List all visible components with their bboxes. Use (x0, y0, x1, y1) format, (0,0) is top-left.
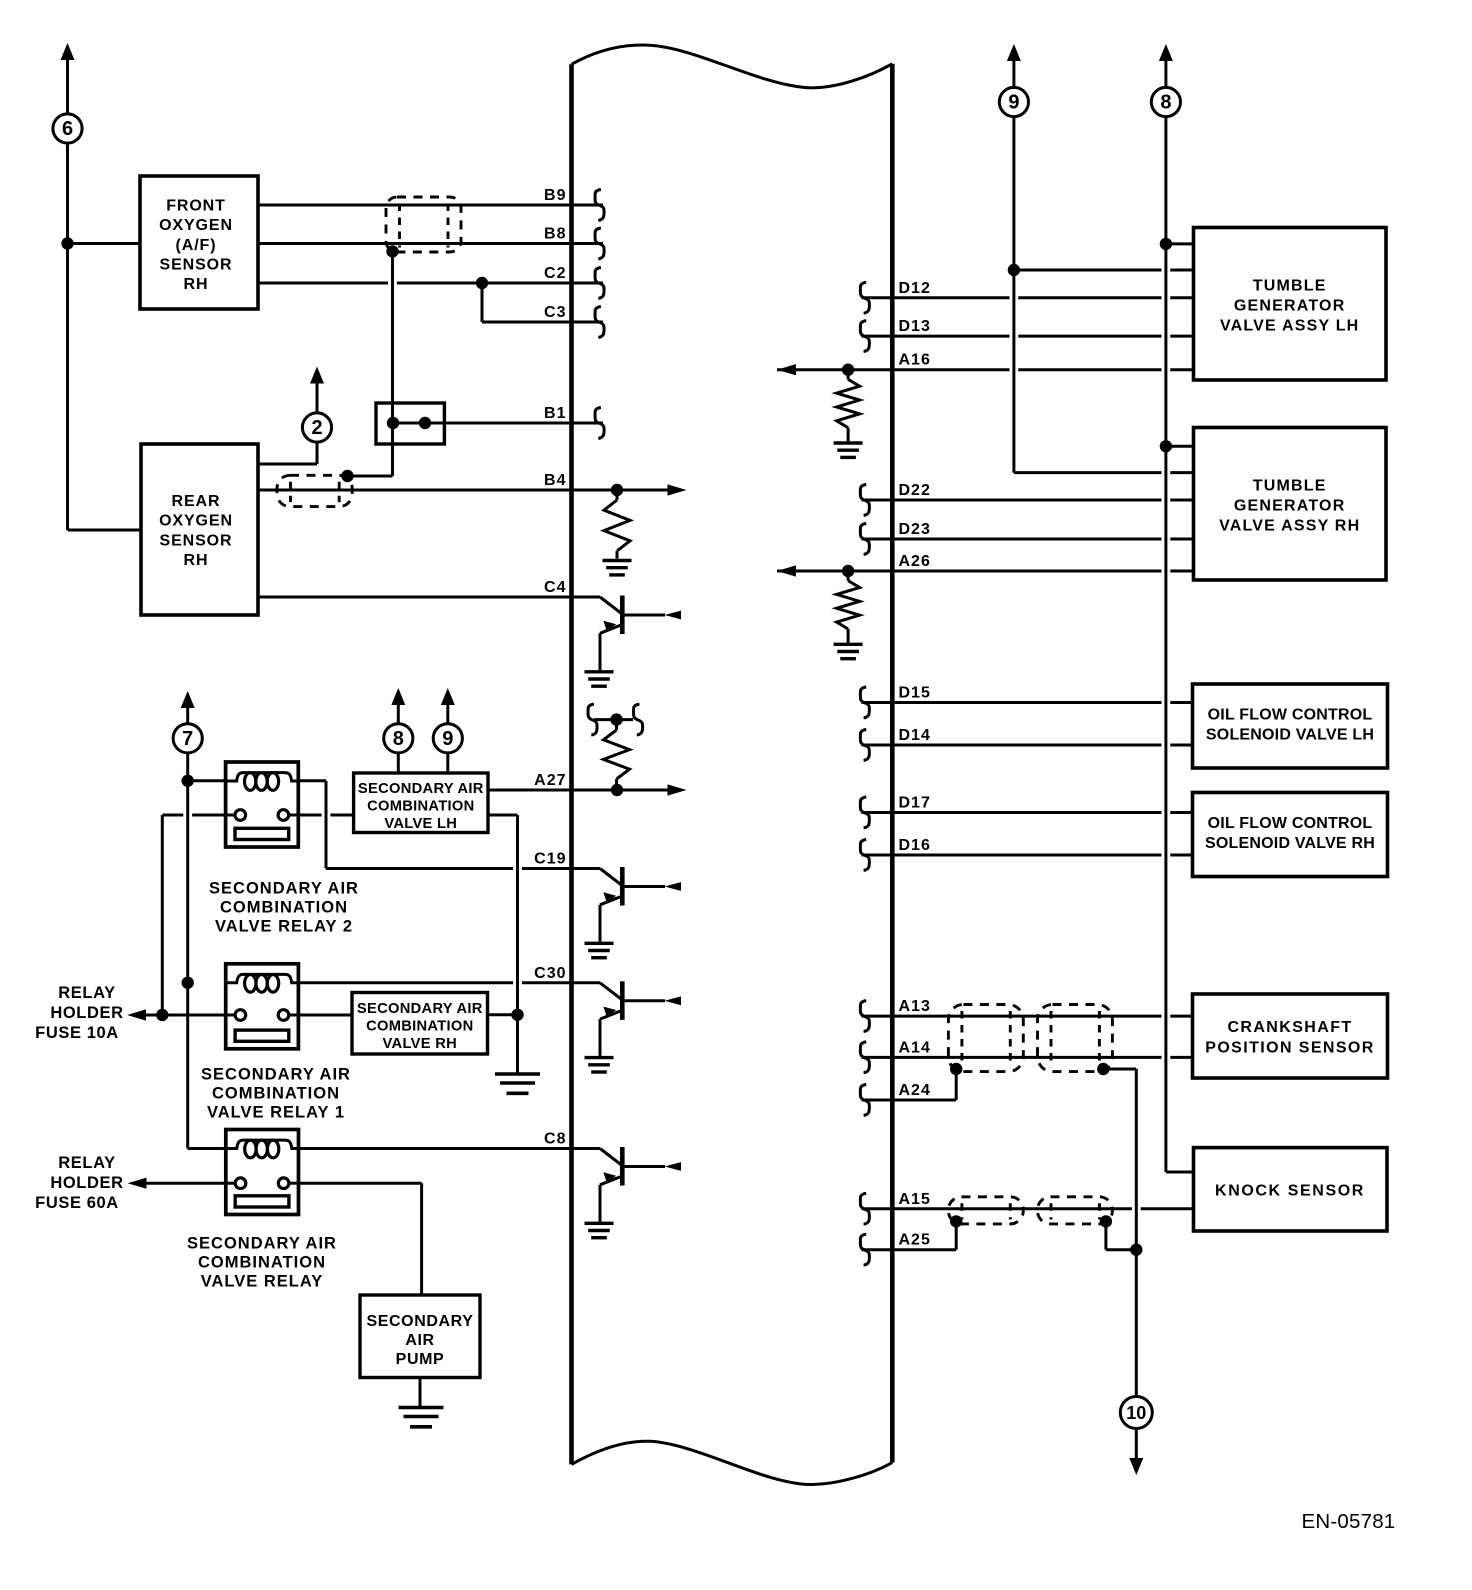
circle 8 left (384, 724, 413, 753)
stub break left (588, 704, 597, 735)
pin label D22 (899, 482, 931, 499)
pin break A14 (860, 1042, 869, 1073)
tumble LH label (1220, 278, 1359, 335)
pin label A26 (899, 553, 931, 570)
junction dot C2/C3 (476, 277, 488, 289)
svg-text:10: 10 (1126, 1403, 1146, 1423)
resistor A27 pull-up (604, 720, 630, 790)
junction dot bus9/tumble LH (1008, 264, 1020, 276)
wire bus 7 vertical (186, 753, 189, 1149)
wire bus8 to tumble LH (1166, 242, 1194, 245)
svg-text:D22: D22 (899, 482, 931, 499)
wire sensor ground bus to 10 (1135, 1250, 1138, 1397)
pin label C19 (534, 851, 566, 868)
wire valve LH to ground bus (488, 815, 518, 1073)
svg-text:SECONDARY AIR: SECONDARY AIR (209, 880, 359, 898)
valve LH label (358, 781, 484, 832)
shield capsule B9/B8 (386, 197, 461, 252)
pin label D14 (899, 727, 931, 744)
shield capsule B4 (277, 475, 352, 506)
ground A16 resistor (834, 443, 863, 457)
wire A13 (862, 1015, 1193, 1018)
pin break C3 (595, 307, 604, 338)
pin break C2 (595, 268, 604, 299)
secondary air combination valve LH box (354, 773, 488, 833)
circle 2 (302, 413, 331, 442)
shield dot crank right (1097, 1063, 1109, 1075)
pin break D13 (860, 321, 869, 352)
wire A25 (862, 1221, 957, 1249)
svg-text:D12: D12 (899, 280, 931, 297)
arrowhead fuse 60A (128, 1178, 147, 1189)
svg-text:VALVE RELAY 2: VALVE RELAY 2 (215, 918, 353, 936)
pin label D15 (899, 685, 931, 702)
twisted pair capsule A13/A14 right (1038, 1005, 1113, 1072)
svg-text:COMBINATION: COMBINATION (212, 1084, 340, 1102)
junction dot bus7/relay2 (182, 775, 194, 787)
svg-text:D23: D23 (899, 521, 931, 538)
knock sensor label (1215, 1183, 1365, 1200)
svg-text:GENERATOR: GENERATOR (1234, 498, 1346, 515)
pin label A16 (899, 352, 931, 369)
junction dot fuse10A (156, 1009, 168, 1021)
wire A16 (777, 368, 1194, 371)
wire A27 (488, 789, 668, 792)
wire front sensor ground lead (68, 242, 141, 245)
svg-text:VALVE RELAY 1: VALVE RELAY 1 (207, 1103, 345, 1121)
pin label A25 (899, 1232, 931, 1249)
resistor A26 pull-down (837, 571, 860, 643)
ECM left wall (569, 64, 574, 1464)
relay R3 secondary air combination valve relay (226, 1130, 299, 1215)
wire C3 branch (482, 283, 603, 322)
knock sensor box (1194, 1148, 1388, 1231)
joint connector dots (387, 417, 431, 429)
svg-text:A27: A27 (534, 772, 566, 789)
svg-text:RH: RH (184, 552, 209, 569)
svg-text:A14: A14 (899, 1039, 931, 1056)
svg-text:OIL FLOW CONTROL: OIL FLOW CONTROL (1208, 815, 1373, 832)
wire C30 (298, 981, 600, 984)
wire relay3 contact to pump (299, 1183, 422, 1295)
svg-text:6: 6 (62, 118, 73, 140)
pin break D22 (860, 485, 869, 516)
wire circle9 to valve LH (446, 753, 449, 773)
crankshaft position sensor box (1193, 994, 1388, 1078)
junction dot A26 (842, 565, 854, 577)
relay3 label (187, 1235, 337, 1291)
arrowhead A16 (777, 364, 796, 375)
svg-text:B9: B9 (544, 187, 566, 204)
ground B4 resistor (603, 561, 632, 575)
tumble generator valve assy LH box (1194, 228, 1387, 381)
wire D14 (862, 744, 1193, 747)
pin label D12 (899, 280, 931, 297)
figure number EN-05781 (1302, 1510, 1396, 1533)
wire circle2 to rear sensor (258, 442, 317, 464)
circle 9 left (433, 724, 462, 753)
wire relay2 contact left (162, 815, 225, 1015)
circle 7 (173, 724, 202, 753)
internal supply stub A27 (594, 718, 633, 721)
pin break D15 (860, 687, 869, 718)
wire B1 (425, 422, 603, 425)
svg-text:SOLENOID VALVE LH: SOLENOID VALVE LH (1206, 726, 1374, 743)
relay holder fuse 10A label (35, 984, 123, 1042)
wire C2 (258, 282, 603, 285)
wire fuse60A to relay3 (144, 1182, 226, 1185)
svg-text:TUMBLE: TUMBLE (1253, 278, 1327, 295)
wire bus7 to relay3 coil (188, 1147, 226, 1150)
wire bus 9 vertical (1012, 116, 1015, 472)
svg-text:FRONT: FRONT (166, 197, 226, 214)
pin break D14 (860, 730, 869, 761)
svg-text:C19: C19 (534, 851, 566, 868)
pin label C30 (534, 965, 566, 982)
arrow 8 left (391, 688, 405, 724)
twisted pair capsule A15/A25 left (948, 1197, 1023, 1224)
pin label C8 (544, 1131, 566, 1148)
wire bus 6 vertical (68, 143, 142, 530)
shield drain dot B9/B8 (386, 245, 398, 257)
arrow 8 right (1159, 44, 1173, 88)
arrowhead A26 (777, 565, 796, 576)
power feed arrow 6 (61, 43, 75, 114)
wire bus 8 vertical (1164, 116, 1167, 1172)
svg-text:COMBINATION: COMBINATION (366, 1019, 473, 1035)
svg-text:PUMP: PUMP (396, 1351, 445, 1368)
resistor B4 pull-down (604, 490, 630, 559)
svg-text:C30: C30 (534, 965, 566, 982)
rear oxygen sensor label (159, 493, 233, 569)
secondary air combination valve RH box (352, 993, 488, 1055)
front oxygen sensor label (159, 197, 233, 293)
arrow 10 (1129, 1429, 1143, 1475)
oil flow control solenoid valve RH box (1193, 793, 1388, 877)
svg-text:C3: C3 (544, 304, 566, 321)
wire bus8 to knock sensor (1166, 1171, 1194, 1174)
wire B8 (258, 242, 603, 245)
pin break D17 (860, 797, 869, 828)
resistor A16 pull-down (837, 370, 860, 442)
svg-text:B8: B8 (544, 226, 566, 243)
svg-text:B4: B4 (544, 472, 566, 489)
oil flow control solenoid valve LH box (1193, 684, 1388, 768)
svg-text:VALVE ASSY RH: VALVE ASSY RH (1219, 518, 1360, 535)
relay2 label (209, 880, 359, 936)
svg-text:REAR: REAR (172, 493, 221, 510)
transistor C19 driver (585, 867, 682, 958)
pin label D17 (899, 795, 931, 812)
svg-text:A15: A15 (899, 1191, 931, 1208)
svg-text:AIR: AIR (405, 1332, 434, 1349)
transistor C8 driver (585, 1147, 682, 1238)
wire A14 (862, 1056, 1193, 1059)
arrow 7 (181, 691, 195, 724)
wire pump to ground (419, 1378, 422, 1407)
transistor C4 driver (585, 596, 682, 687)
transistor C30 driver (585, 981, 682, 1072)
svg-text:9: 9 (1008, 92, 1019, 114)
tumble RH label (1219, 478, 1360, 535)
ground pump (399, 1408, 444, 1427)
ground valves (495, 1074, 540, 1093)
pin label B1 (544, 405, 566, 422)
wire A15 (862, 1207, 1194, 1210)
svg-text:D16: D16 (899, 837, 931, 854)
junction dot valve RH ground (511, 1009, 523, 1021)
svg-text:EN-05781: EN-05781 (1302, 1510, 1396, 1533)
svg-text:FUSE 60A: FUSE 60A (35, 1194, 119, 1212)
wire D22 (862, 499, 1194, 502)
arrow 9 right (1007, 44, 1021, 88)
svg-text:SECONDARY AIR: SECONDARY AIR (201, 1065, 351, 1083)
wire C19 (326, 867, 600, 870)
svg-text:SOLENOID VALVE RH: SOLENOID VALVE RH (1205, 835, 1375, 852)
wire D17 (862, 811, 1193, 814)
wire D12 (862, 296, 1194, 299)
wire D13 (862, 335, 1194, 338)
wire bus9 to tumble LH (1014, 269, 1194, 272)
pin break D12 (860, 282, 869, 313)
wire relay2 coil feed (188, 779, 226, 782)
pin label A13 (899, 998, 931, 1015)
arrowhead B4 (668, 484, 687, 495)
svg-text:HOLDER: HOLDER (50, 1174, 123, 1192)
junction dot A27 (611, 784, 623, 796)
shield dot A25 (950, 1215, 962, 1227)
junction dot bus8/tumble RH (1160, 440, 1172, 452)
junction dot bus8/tumble LH (1160, 238, 1172, 250)
svg-text:B1: B1 (544, 405, 566, 422)
pin break A24 (860, 1085, 869, 1116)
wire B4 (258, 489, 668, 492)
valve RH label (357, 1001, 483, 1052)
wire B9 (258, 204, 603, 207)
svg-text:OIL FLOW CONTROL: OIL FLOW CONTROL (1208, 706, 1373, 723)
ECM right wall (890, 64, 895, 1463)
twisted pair capsule A15/A25 right (1038, 1197, 1113, 1224)
twisted pair capsule A13/A14 left (948, 1005, 1023, 1072)
stub break right (634, 704, 643, 735)
pin label C3 (544, 304, 566, 321)
arrow 2 (310, 367, 324, 413)
svg-text:COMBINATION: COMBINATION (220, 899, 348, 917)
wire fuse10A to relay1 (144, 1014, 226, 1017)
arrowhead A27 (668, 784, 687, 795)
junction dot bus6/front-sensor (61, 237, 73, 249)
svg-text:POSITION SENSOR: POSITION SENSOR (1205, 1039, 1374, 1056)
wire circle8 to valve LH (397, 753, 400, 773)
wire A24 (862, 1069, 957, 1100)
wire D23 (862, 538, 1194, 541)
pin break A25 (860, 1234, 869, 1265)
svg-text:COMBINATION: COMBINATION (198, 1254, 326, 1272)
svg-text:COMBINATION: COMBINATION (367, 799, 474, 815)
svg-text:A26: A26 (899, 553, 931, 570)
wire D15 (862, 701, 1193, 704)
svg-text:CRANKSHAFT: CRANKSHAFT (1227, 1019, 1352, 1036)
junction dot A27 pull-up (610, 713, 622, 725)
crankshaft label (1205, 1019, 1374, 1056)
svg-text:SENSOR: SENSOR (160, 257, 233, 274)
wire knock shield drain (1106, 1221, 1136, 1249)
svg-text:2: 2 (311, 417, 322, 439)
pin label A15 (899, 1191, 931, 1208)
svg-text:TUMBLE: TUMBLE (1253, 478, 1327, 495)
pin break B8 (595, 228, 604, 259)
svg-text:(A/F): (A/F) (176, 237, 217, 254)
pin break D23 (860, 524, 869, 555)
front oxygen sensor box (140, 176, 258, 309)
svg-text:SECONDARY AIR: SECONDARY AIR (357, 1001, 483, 1017)
svg-text:A16: A16 (899, 352, 931, 369)
svg-text:9: 9 (442, 728, 453, 750)
pump label (366, 1313, 473, 1368)
relay R2 secondary air combination valve relay 2 (226, 762, 299, 847)
ground A26 resistor (834, 644, 863, 658)
svg-text:D13: D13 (899, 318, 931, 335)
svg-text:7: 7 (182, 728, 193, 750)
pin break B1 (595, 408, 604, 439)
circle 6 (53, 114, 82, 143)
circle 8 right (1151, 87, 1180, 116)
wire A26 (777, 570, 1194, 573)
svg-text:GENERATOR: GENERATOR (1234, 298, 1346, 315)
circle 10 (1120, 1397, 1152, 1429)
pin break A13 (860, 1001, 869, 1032)
pin label A27 (534, 772, 566, 789)
svg-text:8: 8 (393, 728, 404, 750)
wire relay2 coil to C19 (298, 781, 326, 869)
wire crank shield to sensor ground bus (1103, 1069, 1136, 1250)
oil flow RH label (1205, 815, 1375, 852)
pin label B4 (544, 472, 566, 489)
svg-text:VALVE RH: VALVE RH (383, 1036, 457, 1052)
tumble generator valve assy RH box (1194, 428, 1387, 581)
rear oxygen sensor box (141, 444, 258, 615)
svg-text:VALVE RELAY: VALVE RELAY (201, 1273, 324, 1291)
circle 9 right (999, 87, 1028, 116)
pin break D16 (860, 840, 869, 871)
wire bus8 to tumble RH (1166, 445, 1194, 448)
svg-text:8: 8 (1160, 92, 1171, 114)
svg-text:RH: RH (184, 276, 209, 293)
svg-text:A25: A25 (899, 1232, 931, 1249)
shield dot A24 (950, 1063, 962, 1075)
wire D16 (862, 854, 1193, 857)
pin label C2 (544, 265, 566, 282)
svg-text:VALVE ASSY LH: VALVE ASSY LH (1220, 318, 1359, 335)
svg-text:SECONDARY: SECONDARY (366, 1313, 473, 1330)
pin label A24 (899, 1082, 931, 1099)
pin label C4 (544, 579, 566, 596)
arrow 9 left (441, 688, 455, 724)
junction dot B4 (611, 484, 623, 496)
wire C4 (258, 596, 600, 599)
svg-text:OXYGEN: OXYGEN (159, 217, 233, 234)
svg-text:SECONDARY AIR: SECONDARY AIR (187, 1235, 337, 1253)
svg-text:A13: A13 (899, 998, 931, 1015)
svg-text:SECONDARY AIR: SECONDARY AIR (358, 781, 484, 797)
pin label D13 (899, 318, 931, 335)
svg-text:VALVE LH: VALVE LH (384, 816, 457, 832)
svg-text:FUSE 10A: FUSE 10A (35, 1024, 119, 1042)
svg-text:SENSOR: SENSOR (160, 532, 233, 549)
wire relay2 contact right (298, 814, 353, 817)
pin break B9 (595, 190, 604, 221)
ECM torn top edge (572, 45, 893, 88)
joint connector box B1 (376, 403, 444, 444)
oil flow LH label (1206, 706, 1374, 743)
pin label B8 (544, 226, 566, 243)
pin label D16 (899, 837, 931, 854)
svg-text:KNOCK SENSOR: KNOCK SENSOR (1215, 1183, 1365, 1200)
wire relay1 contact to valve RH (298, 1014, 352, 1017)
pin break A15 (860, 1193, 869, 1224)
svg-text:HOLDER: HOLDER (50, 1004, 123, 1022)
pin label B9 (544, 187, 566, 204)
svg-text:D17: D17 (899, 795, 931, 812)
svg-text:A24: A24 (899, 1082, 931, 1099)
svg-text:C8: C8 (544, 1131, 566, 1148)
wire bus9 to tumble RH (1014, 471, 1194, 474)
svg-text:D15: D15 (899, 685, 931, 702)
ECM torn bottom edge (572, 1441, 893, 1484)
shield drain wire vertical (348, 251, 393, 476)
secondary air pump box (360, 1295, 480, 1378)
svg-text:D14: D14 (899, 727, 931, 744)
junction dot A16 (842, 364, 854, 376)
arrowhead fuse 10A (127, 1009, 146, 1020)
wire valve RH to ground (488, 1013, 518, 1016)
shield drain dot B4 (341, 470, 353, 482)
svg-text:C4: C4 (544, 579, 566, 596)
svg-text:C2: C2 (544, 265, 566, 282)
junction dot sensor ground bus (1130, 1244, 1142, 1256)
wire C8 (299, 1147, 601, 1150)
pin label D23 (899, 521, 931, 538)
relay holder fuse 60A label (35, 1154, 123, 1212)
svg-text:RELAY: RELAY (58, 984, 115, 1002)
svg-text:RELAY: RELAY (58, 1154, 115, 1172)
pin label A14 (899, 1039, 931, 1056)
shield dot knock right (1100, 1215, 1112, 1227)
svg-text:OXYGEN: OXYGEN (159, 513, 233, 530)
relay R1 secondary air combination valve relay 1 (226, 964, 299, 1049)
junction dot bus7/relay1 (182, 977, 194, 989)
relay1 label (201, 1065, 351, 1121)
